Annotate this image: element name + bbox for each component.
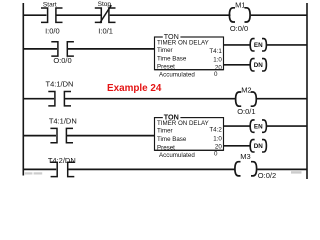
svg-text:Accumulated: Accumulated — [159, 71, 195, 78]
svg-text:1:0: 1:0 — [213, 57, 222, 64]
contact O:0/0 (NO, seal-in) — [51, 42, 74, 56]
svg-text:T4:1/DN: T4:1/DN — [46, 79, 74, 88]
wire rung3 left rail to contact T4:1/DN — [23, 98, 55, 100]
wire TON2 to EN indicator — [224, 125, 252, 127]
contact Stop I:0/1 (NC) — [95, 5, 116, 23]
svg-text:T4:1: T4:1 — [209, 48, 222, 55]
svg-text:I:0/1: I:0/1 — [98, 26, 113, 35]
indicator coil EN (T4:2) — [250, 120, 266, 132]
wire EN2 to right rail — [267, 125, 307, 127]
wire TON1 to EN indicator — [224, 44, 252, 46]
indicator coil DN (T4:1) — [250, 59, 266, 71]
coil M1 — [229, 8, 250, 22]
svg-text:O:0/0: O:0/0 — [53, 56, 71, 65]
svg-text:M2: M2 — [241, 85, 251, 94]
watermark right — [291, 171, 302, 173]
coil M3 — [235, 162, 257, 176]
svg-text:0: 0 — [214, 71, 218, 78]
svg-text:T4:1/DN: T4:1/DN — [49, 116, 77, 125]
indicator coil EN (T4:1) — [250, 39, 266, 51]
svg-text:DN: DN — [254, 62, 264, 69]
wire rung3 contact to coil M2 — [65, 98, 236, 100]
svg-text:EN: EN — [254, 123, 263, 130]
wire rung5 contact to coil M3 — [68, 168, 235, 170]
wire TON1 to DN indicator — [224, 64, 252, 66]
wire rung1 Start to Stop — [57, 14, 101, 16]
contact Start I:0/0 (NO) — [41, 8, 63, 22]
svg-text:Timer: Timer — [157, 127, 173, 134]
watermark left — [25, 172, 33, 174]
contact T4:1/DN (NO) — [48, 92, 71, 106]
timer block TON T4:1 — [155, 32, 224, 79]
contact T4:2/DN (NO) — [51, 162, 75, 176]
svg-text:EN: EN — [254, 42, 263, 49]
svg-text:Time Base: Time Base — [157, 136, 187, 143]
wire rung2 contact to TON block 1 — [68, 48, 155, 50]
indicator coil DN (T4:2) — [250, 140, 266, 152]
svg-text:O:0/1: O:0/1 — [237, 107, 255, 116]
svg-text:O:0/2: O:0/2 — [258, 171, 276, 180]
wire rung1 left rail to Start contact — [23, 14, 47, 16]
svg-text:T4:2/DN: T4:2/DN — [48, 156, 76, 165]
wire rung1 coil M1 to right rail — [251, 14, 307, 16]
wire rung3 coil M2 to right rail — [257, 98, 307, 100]
svg-text:Accumulated: Accumulated — [159, 152, 195, 159]
svg-text:Example 24: Example 24 — [107, 83, 162, 94]
wire EN to right rail — [267, 44, 307, 46]
svg-text:O:0/0: O:0/0 — [230, 24, 248, 33]
right power rail — [306, 3, 308, 179]
wire rung5 coil M3 to right rail — [257, 168, 307, 170]
svg-text:TIMER ON DELAY: TIMER ON DELAY — [157, 40, 209, 47]
svg-text:DN: DN — [254, 143, 264, 150]
contact T4:1/DN (NO, second) — [50, 128, 73, 142]
svg-text:T4:2: T4:2 — [209, 127, 222, 134]
wire rung1 Stop to coil M1 — [110, 14, 231, 16]
svg-text:TIMER ON DELAY: TIMER ON DELAY — [157, 120, 209, 127]
wire rung4 left rail to contact T4:1/DN — [23, 135, 57, 137]
left power rail — [22, 3, 24, 176]
svg-text:M3: M3 — [240, 152, 250, 161]
timer block TON T4:2 — [155, 112, 224, 159]
svg-text:Start: Start — [43, 1, 57, 8]
svg-text:Stop: Stop — [98, 1, 112, 8]
wire TON2 to DN indicator — [224, 145, 252, 147]
svg-text:M1: M1 — [235, 1, 245, 10]
wire rung2 left rail to contact O:0/0 — [23, 48, 58, 50]
wire rung5 left rail to contact T4:2/DN — [23, 168, 57, 170]
coil M2 — [236, 92, 257, 106]
svg-text:0: 0 — [214, 150, 218, 157]
svg-text:Timer: Timer — [157, 47, 173, 54]
svg-text:Time Base: Time Base — [157, 56, 187, 63]
wire rung4 contact to TON block 2 — [67, 135, 155, 137]
svg-text:1:0: 1:0 — [213, 135, 222, 142]
svg-text:I:0/0: I:0/0 — [45, 27, 60, 36]
